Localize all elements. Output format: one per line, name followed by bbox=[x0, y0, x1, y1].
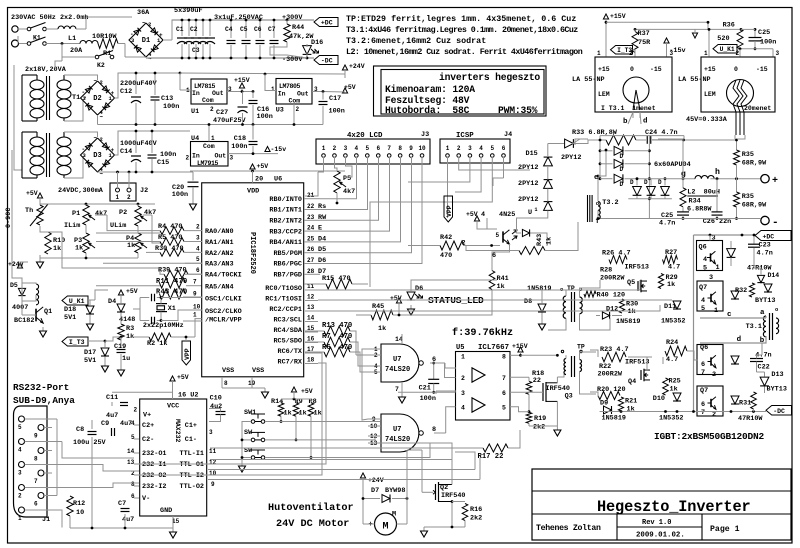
svg-text:b: b bbox=[623, 118, 628, 126]
power +5V bbox=[342, 88, 347, 93]
svg-text:10: 10 bbox=[209, 470, 217, 477]
svg-text:5: 5 bbox=[131, 434, 135, 441]
svg-text:4: 4 bbox=[355, 145, 359, 152]
wire igbt bottom rail bbox=[600, 411, 766, 413]
wire R33 row to R35 bbox=[652, 139, 737, 141]
diode 2PY12 no3 bbox=[544, 180, 553, 189]
svg-text:RC2/CCP1: RC2/CCP1 bbox=[269, 306, 302, 314]
svg-text:10R10W: 10R10W bbox=[92, 33, 117, 41]
gate B output wire bbox=[434, 432, 446, 434]
svg-text:K2: K2 bbox=[97, 62, 105, 69]
svg-text:SW: SW bbox=[244, 429, 253, 437]
svg-text:BC182: BC182 bbox=[14, 317, 34, 325]
svg-text:+5V: +5V bbox=[390, 295, 402, 302]
rectifier bottom rail bbox=[628, 198, 672, 200]
wire motor to gate net bbox=[406, 499, 408, 525]
wire bbox=[118, 43, 125, 45]
svg-text:-DC: -DC bbox=[773, 408, 785, 415]
wire D2 bottom to gnd bus bbox=[97, 115, 99, 125]
wire PIC pins 11-13 to right bbox=[318, 280, 640, 290]
svg-text:+: + bbox=[369, 521, 373, 529]
svg-text:100u 25V: 100u 25V bbox=[73, 439, 107, 447]
svg-text:R37: R37 bbox=[638, 30, 650, 38]
svg-text:R39 470: R39 470 bbox=[158, 267, 187, 275]
wire U5 pin5 bbox=[510, 407, 529, 412]
svg-text:1k: 1k bbox=[670, 386, 678, 394]
svg-text:2: 2 bbox=[457, 145, 461, 152]
resistor R9 1k bbox=[293, 403, 299, 417]
wire DSUB pin1 bbox=[25, 510, 63, 528]
title block line1 bbox=[532, 490, 791, 492]
svg-text:20A: 20A bbox=[70, 47, 83, 55]
relay coil K1 bbox=[36, 284, 39, 305]
power +24V fan bbox=[360, 473, 365, 478]
flag U_K1 bbox=[713, 45, 737, 54]
svg-text:D1: D1 bbox=[142, 37, 150, 45]
resistor R30 470 bbox=[160, 249, 184, 257]
svg-text:68R,9W: 68R,9W bbox=[742, 202, 767, 210]
svg-text:LEM: LEM bbox=[704, 91, 716, 98]
svg-text:Th: Th bbox=[25, 207, 33, 215]
svg-text:22: 22 bbox=[307, 203, 315, 210]
svg-text:U: U bbox=[528, 209, 532, 217]
svg-text:1k: 1k bbox=[314, 410, 322, 418]
svg-text:20menet: 20menet bbox=[744, 105, 771, 112]
svg-text:R17 22: R17 22 bbox=[478, 453, 504, 461]
svg-text:2: 2 bbox=[134, 407, 138, 414]
svg-text:22: 22 bbox=[533, 377, 541, 385]
svg-text:C2: C2 bbox=[190, 26, 198, 33]
svg-text:1: 1 bbox=[18, 515, 22, 522]
capacitor C7 bbox=[273, 20, 275, 38]
power +24V bbox=[342, 65, 347, 70]
svg-text:R45: R45 bbox=[372, 303, 384, 311]
diode near Q7 bottom bbox=[731, 396, 739, 404]
svg-text:R19: R19 bbox=[534, 415, 546, 423]
wire U5 pin3 row bbox=[398, 391, 456, 393]
svg-text:18: 18 bbox=[307, 357, 315, 364]
svg-text:/MCLR/VPP: /MCLR/VPP bbox=[205, 317, 242, 325]
svg-text:-15: -15 bbox=[650, 66, 662, 73]
svg-text:P1: P1 bbox=[72, 210, 80, 218]
resistor R14 1k bbox=[278, 403, 284, 417]
svg-text:+5V: +5V bbox=[126, 288, 138, 295]
svg-text:RA5/AN4: RA5/AN4 bbox=[205, 284, 234, 292]
resistor R35 68R 9W top bbox=[736, 140, 738, 150]
svg-text:C11: C11 bbox=[106, 394, 118, 402]
svg-text:IRF513: IRF513 bbox=[625, 359, 649, 367]
resistor R34 6.8R8W bbox=[682, 179, 684, 188]
svg-text:2: 2 bbox=[100, 79, 103, 86]
svg-text:47R10W: 47R10W bbox=[738, 415, 763, 423]
svg-text:D10: D10 bbox=[653, 395, 665, 403]
bottom bus wire bbox=[146, 57, 314, 59]
svg-text:7: 7 bbox=[34, 478, 38, 485]
svg-text:2: 2 bbox=[296, 106, 300, 113]
svg-text:6: 6 bbox=[701, 361, 705, 369]
resistor R25 1k bbox=[663, 378, 669, 395]
svg-text:C17: C17 bbox=[329, 95, 341, 103]
svg-text:h: h bbox=[715, 167, 720, 177]
svg-text:VSS: VSS bbox=[252, 367, 264, 375]
svg-text:5: 5 bbox=[365, 145, 369, 152]
svg-text:RB4/AN11: RB4/AN11 bbox=[269, 239, 302, 247]
svg-text:Q3: Q3 bbox=[565, 392, 573, 400]
svg-text:13: 13 bbox=[127, 459, 135, 466]
wire MAX232 TTL row 12 bbox=[210, 459, 452, 461]
svg-text:25: 25 bbox=[307, 235, 315, 242]
resistor R2 1k bbox=[149, 333, 171, 341]
svg-text:D: D bbox=[620, 166, 624, 173]
svg-text:4: 4 bbox=[196, 245, 200, 252]
svg-text:+: + bbox=[772, 176, 778, 187]
svg-text:4u7: 4u7 bbox=[122, 516, 134, 524]
capacitor bank extra A bbox=[188, 20, 190, 36]
svg-text:36A: 36A bbox=[137, 9, 150, 17]
gate U7 74LS20 A bbox=[381, 344, 419, 382]
svg-text:Tehenes Zoltan: Tehenes Zoltan bbox=[536, 523, 601, 533]
svg-text:+15V: +15V bbox=[610, 13, 626, 20]
svg-text:7: 7 bbox=[701, 369, 705, 377]
svg-text:100n: 100n bbox=[231, 143, 247, 151]
wire bbox=[287, 55, 307, 58]
power +5V arrow mid bbox=[250, 164, 255, 169]
ground bbox=[192, 200, 194, 204]
svg-text:D3: D3 bbox=[93, 152, 101, 160]
wire from R33 down left bbox=[575, 139, 588, 145]
svg-text:23: 23 bbox=[307, 214, 315, 221]
svg-text:VPP: VPP bbox=[446, 205, 453, 217]
svg-text:6: 6 bbox=[376, 145, 380, 152]
svg-text:R35: R35 bbox=[742, 151, 754, 159]
transformer TP bottom core bbox=[571, 356, 573, 377]
svg-text:7: 7 bbox=[701, 409, 705, 417]
wire into LM7805 bbox=[265, 74, 276, 91]
svg-text:1k: 1k bbox=[546, 237, 554, 245]
svg-text:C7: C7 bbox=[118, 500, 126, 508]
svg-text:3: 3 bbox=[196, 234, 200, 241]
svg-text:C7: C7 bbox=[268, 26, 276, 33]
wire gnd rail under regulators bbox=[190, 124, 323, 126]
wire PIC TX RX bbox=[318, 353, 330, 440]
power +5V thermistor bbox=[37, 193, 42, 198]
ground bbox=[410, 305, 412, 309]
svg-text:Q6: Q6 bbox=[699, 244, 707, 252]
resistor R44 47k 2W bbox=[286, 19, 289, 22]
wire MAX232 TTL row 9 bbox=[208, 479, 480, 481]
svg-text:RA3/AN3: RA3/AN3 bbox=[205, 261, 234, 269]
transformer T1 winding lower-left bbox=[30, 137, 44, 146]
wire LCD pin1 down bbox=[318, 157, 324, 172]
wire MAX232 TTL row 10 bbox=[208, 469, 475, 471]
inductor L2 80uH bbox=[695, 175, 714, 178]
svg-text:9: 9 bbox=[34, 433, 38, 440]
svg-text:C18: C18 bbox=[234, 135, 246, 143]
svg-text:V-: V- bbox=[142, 495, 150, 503]
flag -DC bbox=[314, 56, 338, 65]
wire osc rows bbox=[183, 296, 202, 298]
svg-text:R44: R44 bbox=[292, 24, 304, 32]
transformer T1 winding lower-right bbox=[57, 137, 71, 146]
wire DSUB jumper bundle bbox=[25, 418, 58, 420]
opto coupling arrows bbox=[512, 230, 517, 234]
wire Q3 source down bbox=[556, 401, 558, 426]
resistor R3 1k bbox=[118, 324, 124, 340]
crystal cap top 22p bbox=[151, 294, 153, 302]
svg-text:2PY12: 2PY12 bbox=[518, 196, 538, 204]
svg-text:X1: X1 bbox=[168, 305, 176, 313]
svg-text:232-I2: 232-I2 bbox=[142, 483, 166, 491]
svg-text:LM7805: LM7805 bbox=[279, 83, 301, 90]
svg-text:3: 3 bbox=[209, 429, 213, 436]
wire MAX232 left pins bbox=[134, 424, 139, 426]
svg-text:2: 2 bbox=[712, 371, 716, 379]
svg-text:Page 1: Page 1 bbox=[710, 525, 740, 534]
svg-text:1k: 1k bbox=[127, 242, 135, 250]
svg-text:1k: 1k bbox=[299, 410, 307, 418]
wire LCD-PIC vertical bundle left bbox=[12, 150, 22, 283]
svg-text:RC0/T1OSO: RC0/T1OSO bbox=[265, 285, 302, 293]
svg-text:D6: D6 bbox=[415, 285, 423, 293]
svg-text:-: - bbox=[772, 217, 779, 229]
svg-text:2: 2 bbox=[461, 375, 465, 382]
svg-text:M: M bbox=[392, 511, 396, 519]
svg-text:C15: C15 bbox=[157, 159, 169, 167]
svg-text:10: 10 bbox=[76, 509, 84, 517]
capacitor C2 bbox=[195, 20, 197, 36]
svg-text:J4: J4 bbox=[504, 131, 512, 139]
title block divider vert1 bbox=[616, 514, 618, 540]
svg-text:6.8R8W: 6.8R8W bbox=[687, 206, 712, 214]
svg-text:+: + bbox=[111, 147, 115, 154]
flag I_T3 mid bbox=[62, 337, 88, 346]
svg-text:D: D bbox=[620, 153, 624, 160]
svg-text:D4: D4 bbox=[108, 298, 116, 306]
svg-text:+5V: +5V bbox=[257, 163, 269, 170]
svg-text:200R2W: 200R2W bbox=[600, 275, 625, 283]
svg-text:4007: 4007 bbox=[12, 304, 28, 312]
resistor R39 470 bbox=[164, 270, 188, 278]
svg-text:1k: 1k bbox=[667, 281, 675, 289]
svg-text:+DC: +DC bbox=[321, 20, 333, 27]
svg-text:+5V: +5V bbox=[344, 84, 356, 91]
svg-text:~: ~ bbox=[142, 20, 146, 27]
flag +DC right bbox=[755, 231, 791, 241]
wire g-h bus bbox=[649, 178, 695, 180]
svg-text:1k: 1k bbox=[627, 406, 635, 414]
connector J2 bbox=[110, 183, 136, 201]
svg-text:4.7n: 4.7n bbox=[757, 250, 773, 258]
svg-text:6: 6 bbox=[701, 401, 705, 409]
svg-text:6: 6 bbox=[34, 501, 38, 508]
wire mclr bbox=[183, 320, 202, 322]
svg-text:D16: D16 bbox=[311, 39, 323, 47]
svg-text:27: 27 bbox=[307, 257, 315, 264]
wire box2 pin verticals bbox=[708, 29, 710, 56]
wire Q4 drain bbox=[646, 357, 648, 371]
svg-text:13: 13 bbox=[307, 304, 315, 311]
wire +DC rail bbox=[694, 234, 756, 236]
svg-text:10: 10 bbox=[193, 304, 201, 311]
svg-text:100n: 100n bbox=[163, 103, 179, 111]
wire TP bottom leads bbox=[565, 355, 567, 358]
power +5V D4 bbox=[118, 290, 123, 295]
svg-text:PIC18F2520: PIC18F2520 bbox=[248, 232, 256, 274]
svg-text:2x18V,20VA: 2x18V,20VA bbox=[25, 66, 67, 74]
svg-text:6: 6 bbox=[492, 252, 496, 260]
ground switches bbox=[242, 422, 251, 463]
svg-text:1: 1 bbox=[271, 86, 275, 93]
transformer TP bottom right winding bbox=[580, 360, 582, 372]
wire vertical bundle to gates bbox=[362, 349, 368, 420]
svg-text:RC5/SDO: RC5/SDO bbox=[273, 338, 302, 346]
svg-text:C5: C5 bbox=[240, 26, 248, 33]
wire LM7805 out bbox=[312, 91, 323, 93]
svg-text:Q7: Q7 bbox=[700, 387, 708, 395]
svg-text:U_K1: U_K1 bbox=[69, 298, 85, 305]
output minus bus bbox=[598, 218, 761, 220]
flag VPP at ICSP bbox=[444, 196, 453, 222]
svg-text:8: 8 bbox=[224, 380, 228, 387]
ground Q3 source bbox=[556, 426, 558, 430]
connector J3 LCD box bbox=[316, 139, 430, 164]
svg-text:IGBT:2xBSM50GB120DN2: IGBT:2xBSM50GB120DN2 bbox=[654, 431, 765, 442]
svg-text:2200uF40V: 2200uF40V bbox=[120, 80, 158, 88]
wire Q3 gate bbox=[510, 391, 543, 393]
svg-text:LM7815: LM7815 bbox=[194, 83, 216, 90]
svg-text:R32: R32 bbox=[735, 287, 747, 295]
resistor R12 10 bbox=[67, 496, 73, 516]
svg-text:8: 8 bbox=[398, 145, 402, 152]
transformer TP bottom left winding bbox=[564, 359, 566, 375]
wire driver top bus bbox=[700, 317, 766, 319]
wire LCD pin2 bbox=[335, 157, 338, 171]
svg-text:T3.1: T3.1 bbox=[746, 323, 762, 331]
svg-text:4: 4 bbox=[481, 211, 485, 219]
svg-text:10: 10 bbox=[418, 145, 426, 152]
svg-text:68R,9W: 68R,9W bbox=[742, 160, 767, 168]
bridge rectifier D2 bbox=[81, 81, 115, 115]
svg-text:232-O2: 232-O2 bbox=[142, 472, 166, 480]
svg-text:14: 14 bbox=[127, 448, 135, 455]
diode near Q6 mid bbox=[731, 356, 739, 364]
power -15 feed arrow bbox=[692, 33, 697, 38]
info box outer bbox=[374, 66, 547, 116]
wire T1 to D2 bbox=[64, 75, 98, 80]
svg-text:2k2: 2k2 bbox=[533, 424, 545, 432]
svg-text:1N5819: 1N5819 bbox=[602, 415, 626, 423]
svg-text:+5V: +5V bbox=[466, 211, 478, 218]
buffer triangle B bbox=[472, 398, 485, 412]
transformer T1 core upper bbox=[46, 76, 48, 120]
svg-text:TTL-I2: TTL-I2 bbox=[180, 472, 204, 480]
wire T1 to D3 bbox=[64, 132, 98, 137]
svg-text:R2 1k: R2 1k bbox=[147, 340, 167, 348]
svg-text:D18: D18 bbox=[64, 306, 76, 314]
svg-text:C22: C22 bbox=[758, 364, 770, 372]
svg-text:R34: R34 bbox=[689, 198, 701, 206]
svg-text:+24V: +24V bbox=[349, 63, 365, 70]
bridge rectifier D3 bbox=[81, 138, 115, 172]
wire opto R41 bottom to gates region bbox=[368, 291, 497, 315]
svg-text:TTL-I1: TTL-I1 bbox=[180, 450, 204, 458]
top bus wire bbox=[172, 19, 314, 21]
svg-text:VDD: VDD bbox=[247, 187, 259, 195]
wire regulator out bbox=[227, 91, 253, 93]
svg-text:R40 120: R40 120 bbox=[597, 292, 626, 300]
title block line2 bbox=[532, 513, 791, 515]
capacitor bank extra B bbox=[202, 20, 204, 36]
power +15V right bbox=[603, 14, 608, 19]
svg-text:U1: U1 bbox=[191, 108, 199, 116]
connector J1 SUB-D9 shell bbox=[14, 406, 48, 517]
svg-text:C1+: C1+ bbox=[185, 422, 197, 430]
svg-text:9: 9 bbox=[193, 291, 197, 298]
resistor R17 22 bbox=[483, 444, 508, 452]
power +5V opto bbox=[474, 216, 479, 221]
svg-text:2: 2 bbox=[100, 136, 103, 143]
rectifier block left rail bbox=[599, 136, 601, 179]
svg-text:D7: D7 bbox=[371, 487, 379, 495]
title block outer bbox=[532, 469, 791, 540]
svg-text:7: 7 bbox=[387, 145, 391, 152]
svg-text:D12: D12 bbox=[606, 306, 618, 314]
svg-text:OSC1/CLKI: OSC1/CLKI bbox=[205, 296, 242, 304]
wire R23 row to drivers bbox=[599, 356, 601, 358]
gate input stub wires bbox=[368, 348, 381, 350]
svg-text:GND: GND bbox=[160, 507, 172, 515]
svg-text:2: 2 bbox=[629, 50, 633, 57]
svg-text:16: 16 bbox=[307, 336, 315, 343]
switch K1 pole B bbox=[27, 42, 31, 46]
power -15v arrow bbox=[265, 147, 270, 152]
svg-text:5: 5 bbox=[196, 256, 200, 263]
svg-text:D: D bbox=[620, 181, 624, 188]
svg-text:9: 9 bbox=[409, 145, 413, 152]
wire gate A out to U5 pin2 bbox=[430, 363, 456, 378]
svg-text:C14: C14 bbox=[120, 148, 132, 156]
svg-text:Rev 1.0: Rev 1.0 bbox=[642, 519, 671, 527]
svg-text:4: 4 bbox=[461, 405, 465, 412]
inductor L1 winding B bbox=[80, 41, 98, 44]
svg-text:+15: +15 bbox=[598, 66, 610, 73]
svg-text:2: 2 bbox=[186, 155, 190, 162]
svg-text:Com: Com bbox=[202, 97, 214, 104]
svg-text:100n: 100n bbox=[160, 151, 176, 159]
opto transistor bbox=[502, 231, 504, 242]
svg-text:4k7: 4k7 bbox=[343, 188, 355, 196]
wire LCD pins 4-10 to PIC bbox=[320, 157, 357, 199]
wire Q2 drain up to R17 bbox=[451, 448, 453, 485]
svg-text:24: 24 bbox=[307, 225, 315, 232]
svg-text:8: 8 bbox=[34, 456, 38, 463]
wire rows to PIC left bbox=[130, 336, 149, 338]
wire Q2 source down bbox=[451, 502, 453, 528]
svg-text:PWM:35%: PWM:35% bbox=[498, 105, 538, 116]
svg-text:C3: C3 bbox=[192, 47, 200, 54]
svg-text:T3.1:4xU46 ferritmag.Legres 0.: T3.1:4xU46 ferritmag.Legres 0.1mm. 20men… bbox=[346, 25, 578, 35]
svg-text:1: 1 bbox=[597, 50, 601, 57]
svg-text:-: - bbox=[130, 31, 134, 38]
svg-text:+5V: +5V bbox=[177, 374, 189, 381]
svg-text:D14: D14 bbox=[768, 272, 780, 279]
flag -DC right bbox=[766, 406, 792, 416]
svg-text:C6: C6 bbox=[254, 26, 262, 33]
svg-text:4k7: 4k7 bbox=[95, 210, 107, 218]
svg-text:RB0/INT0: RB0/INT0 bbox=[269, 196, 302, 204]
connector X1 terminal bottom bbox=[12, 40, 19, 47]
svg-text:P5: P5 bbox=[343, 175, 351, 183]
